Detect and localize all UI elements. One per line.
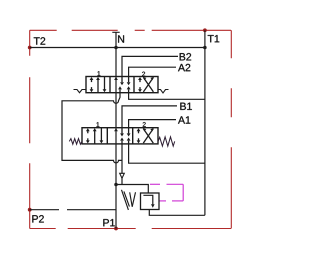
valve 2 gallery arrow up <box>114 77 118 80</box>
valve section 1 body (lower) <box>82 128 158 144</box>
label pos2 lower <box>143 122 146 127</box>
label B1 <box>180 103 191 110</box>
enclosure dashed boundary <box>30 30 232 228</box>
wire carryover with flow arrow <box>121 144 123 174</box>
label T2 <box>34 37 45 44</box>
valve 1 compartment 3 arrows <box>139 129 154 144</box>
relief valve adjust arrow <box>122 190 129 210</box>
wire lower valve tank return <box>129 144 205 163</box>
wire P2 dashed supply <box>30 209 59 211</box>
port N tick <box>112 31 119 33</box>
relief valve body <box>141 193 160 210</box>
junction dot N on tank line <box>114 46 118 50</box>
relief valve internal path <box>143 195 152 204</box>
wire relief inlet <box>116 185 148 194</box>
label B2 <box>180 53 191 60</box>
wire work port A1 <box>129 120 176 128</box>
label N <box>118 35 124 42</box>
valve 2 compartment 3 arrows <box>140 77 153 92</box>
junction dot P node <box>114 183 118 187</box>
wire T1 right vertical <box>204 30 206 215</box>
wire center gallery N to node <box>115 32 117 184</box>
port T1 <box>203 28 207 32</box>
valve 2 compartment 2 neutral <box>120 77 129 93</box>
label A1 <box>178 116 190 123</box>
label T1 <box>208 35 220 42</box>
label A2 <box>178 64 190 71</box>
valve 2 left detent <box>74 90 87 93</box>
port P1 <box>114 227 118 231</box>
valve section 2 body (upper) <box>86 77 158 93</box>
valve 1 right spring <box>158 137 175 146</box>
label P1 <box>103 219 114 226</box>
wire tank top horizontal T2-T1 <box>30 47 205 49</box>
label pos1 upper <box>98 71 101 75</box>
valve 2 right detent <box>158 90 169 93</box>
label pos2 upper <box>142 72 145 77</box>
remote option dashed box (magenta) <box>150 184 183 201</box>
port T2 <box>28 46 32 50</box>
relief valve spring <box>124 191 136 206</box>
label pos1 lower <box>97 122 100 126</box>
junction dot T1 corner <box>203 46 207 50</box>
valve 1 gallery arrow up <box>114 128 118 131</box>
wire work port A2 <box>129 67 176 76</box>
wire bypass loop around valve 1 <box>62 93 122 163</box>
wire upper valve tank return <box>129 93 205 100</box>
valve 2 compartment 1 arrows <box>92 77 105 93</box>
wire relief outlet <box>149 210 205 216</box>
valve 1 left spring <box>69 139 82 145</box>
valve 1 compartment 2 neutral <box>122 128 129 144</box>
valve 1 compartment 1 arrows <box>88 128 102 144</box>
wire pump gallery node to P1 <box>115 185 117 229</box>
wire work port B2 <box>122 56 178 76</box>
label P2 <box>32 215 43 222</box>
wire work port B1 <box>122 106 177 128</box>
port P2 <box>28 208 32 212</box>
